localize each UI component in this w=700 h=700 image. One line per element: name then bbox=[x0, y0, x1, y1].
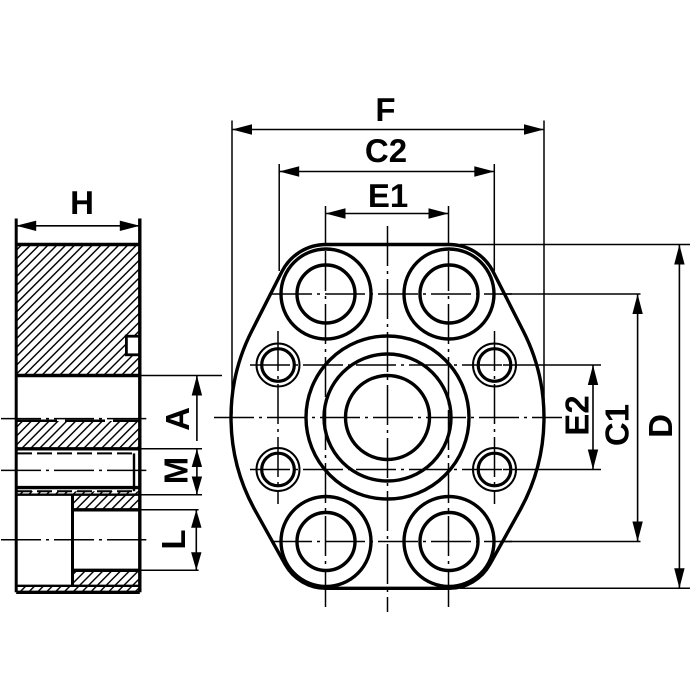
wire: thread end vertical line bbox=[133, 453, 135, 491]
wire: M top extension line bbox=[140, 448, 202, 450]
wire: right face / H right extension bbox=[138, 219, 141, 593]
wire: bottom bolt row centerline bbox=[272, 541, 512, 543]
arrowhead M bottom bbox=[192, 477, 202, 495]
wire: E1 left extension line bbox=[325, 206, 327, 245]
wire: M hole centerline bbox=[1, 469, 146, 471]
hatched band right of counterbore lower bbox=[73, 570, 140, 586]
wire: D top extension line bbox=[460, 244, 690, 246]
wire: F right extension line bbox=[543, 121, 545, 415]
small hole lower-left inner bbox=[262, 453, 295, 486]
wire: C1 bottom extension line bbox=[500, 541, 641, 543]
node: dimension E1 bbox=[326, 213, 449, 215]
wire: E2 bottom extension line bbox=[503, 469, 601, 471]
wire: left small-hole column centerline bbox=[277, 331, 279, 504]
wire: notch left edge bbox=[125, 335, 128, 356]
svg-text:C1: C1 bbox=[599, 404, 636, 446]
small hole lower-right inner bbox=[478, 453, 511, 486]
bolt hole top-right inner bbox=[420, 265, 478, 323]
node: dimension C2 bbox=[279, 171, 494, 173]
svg-text:H: H bbox=[70, 184, 94, 221]
arrowhead F left bbox=[232, 124, 252, 134]
wire: port bore top surface bbox=[16, 374, 140, 377]
arrowhead C2 right bbox=[474, 166, 494, 176]
small hole upper-left outer (thread) bbox=[257, 344, 300, 387]
wire: D bottom extension line bbox=[460, 587, 690, 589]
bolt hole bottom-right inner bbox=[420, 513, 478, 571]
node: dimension L bbox=[195, 510, 197, 571]
svg-text:C2: C2 bbox=[365, 132, 407, 169]
wire: right small-hole column centerline bbox=[494, 331, 496, 504]
node: dimension D bbox=[678, 245, 680, 589]
port bore inner circle bbox=[346, 376, 430, 460]
wire: thread hole bottom boundary bbox=[16, 486, 140, 489]
wire: C1 top extension line bbox=[500, 293, 641, 295]
small hole lower-left outer (thread) bbox=[257, 448, 300, 491]
arrowhead E2 top bbox=[588, 365, 598, 385]
svg-text:E1: E1 bbox=[368, 177, 408, 214]
arrowhead H left bbox=[16, 221, 36, 231]
svg-text:L: L bbox=[155, 529, 192, 549]
arrowhead E1 right bbox=[429, 208, 449, 218]
wire: main centerline (section) bbox=[1, 418, 146, 420]
wire: counterbore step vertical bbox=[71, 495, 74, 586]
svg-text:M: M bbox=[158, 457, 195, 485]
arrowhead L bottom bbox=[191, 552, 201, 570]
thin hatched strip below thread bbox=[16, 491, 140, 494]
wire: A top extension line bbox=[140, 375, 222, 377]
wire: C2 left extension line bbox=[278, 164, 280, 271]
bolt hole top-right outer bbox=[404, 249, 494, 339]
wire: bottom face bbox=[16, 591, 140, 594]
arrowhead C1 top bbox=[632, 294, 642, 314]
wire: M bottom extension line bbox=[140, 494, 202, 496]
small hole upper-left inner bbox=[262, 349, 295, 382]
hatched band right of counterbore upper bbox=[73, 495, 140, 510]
flange outline (rounded hexagonal plate) bbox=[231, 245, 544, 589]
wire: dashed thread line upper port bbox=[17, 420, 140, 423]
arrowhead D top bbox=[674, 245, 684, 265]
wire: L hole centerline bbox=[1, 539, 146, 541]
node: dimension C1 bbox=[637, 294, 639, 542]
wire: C2 right extension line bbox=[493, 164, 495, 271]
wire: dashed thread crest lower bbox=[17, 490, 134, 492]
wire: counterbore top edge bbox=[16, 494, 140, 496]
port bore middle circle bbox=[324, 354, 451, 481]
arrowhead C1 bottom bbox=[632, 522, 642, 542]
wire: left face / H left extension bbox=[15, 219, 18, 593]
arrowhead F right bbox=[524, 124, 544, 134]
wire: dashed thread crest upper bbox=[17, 452, 134, 454]
bolt hole top-left inner bbox=[297, 265, 355, 323]
node: dimension E2 bbox=[592, 365, 594, 470]
arrowhead D bottom bbox=[674, 568, 684, 588]
wire: L bottom extension line bbox=[140, 569, 199, 571]
wire: top small-hole row centerline bbox=[250, 364, 505, 366]
arrowhead L top bbox=[191, 510, 201, 528]
wire: E2 top extension line bbox=[503, 364, 601, 366]
wire: main vertical centerline bbox=[387, 226, 389, 612]
bolt hole bottom-right outer bbox=[404, 497, 494, 587]
svg-text:F: F bbox=[375, 91, 395, 128]
bolt hole top-left outer bbox=[281, 249, 371, 339]
wire: top face bbox=[16, 243, 140, 246]
svg-text:A: A bbox=[159, 407, 196, 431]
wire: right bolt column centerline bbox=[448, 251, 450, 607]
arrowhead E1 left bbox=[326, 208, 346, 218]
wire: F left extension line bbox=[231, 121, 233, 415]
wire: main horizontal centerline (right view) bbox=[214, 417, 562, 419]
svg-text:E2: E2 bbox=[558, 395, 595, 435]
wire: left bolt column centerline bbox=[325, 251, 327, 607]
wire: notch bottom edge bbox=[125, 353, 140, 356]
wire: top bolt row centerline bbox=[272, 293, 512, 295]
arrowhead M top bbox=[192, 449, 202, 467]
wire: bottom strip upper edge bbox=[16, 585, 140, 587]
small hole lower-right outer (thread) bbox=[473, 448, 516, 491]
small hole upper-right outer (thread) bbox=[473, 344, 516, 387]
wire: L top extension line bbox=[140, 509, 199, 511]
bolt hole bottom-left inner bbox=[297, 513, 355, 571]
node: dimension M bbox=[196, 449, 198, 495]
arrowhead A bbox=[192, 376, 202, 396]
O-ring groove notch bbox=[126, 336, 140, 355]
node: dimension H bbox=[16, 225, 140, 227]
wire: L bore bottom edge bbox=[73, 569, 140, 572]
port bore outer circle bbox=[306, 336, 469, 499]
node: dimension F bbox=[232, 129, 544, 131]
wire: notch top edge bbox=[125, 335, 140, 338]
arrowhead E2 bottom bbox=[588, 450, 598, 470]
bolt hole bottom-left outer bbox=[281, 497, 371, 587]
node: dimension A bbox=[196, 376, 198, 442]
wire: E1 right extension line bbox=[448, 206, 450, 245]
wire: thread hole top boundary bbox=[16, 447, 140, 450]
svg-text:D: D bbox=[642, 414, 679, 438]
hatched band (between port and thread) bbox=[16, 421, 140, 448]
small hole upper-right inner bbox=[478, 349, 511, 382]
wire: L bore top edge bbox=[73, 508, 140, 511]
wire: bottom small-hole row centerline bbox=[250, 469, 505, 471]
arrowhead C2 left bbox=[279, 166, 299, 176]
thin hatched strip at bottom bbox=[16, 586, 140, 593]
hatched block top (flange section) bbox=[16, 245, 140, 376]
arrowhead H right bbox=[120, 221, 140, 231]
